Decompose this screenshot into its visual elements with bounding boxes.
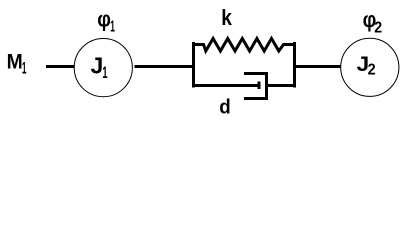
- svg-text:2: 2: [374, 19, 382, 37]
- svg-text:2: 2: [368, 61, 376, 79]
- svg-text:M: M: [7, 50, 23, 74]
- svg-text:d: d: [219, 96, 230, 119]
- svg-text:1: 1: [102, 63, 107, 81]
- svg-text:1: 1: [22, 58, 27, 77]
- svg-text:1: 1: [110, 18, 115, 35]
- svg-text:k: k: [221, 6, 232, 31]
- svg-text:φ: φ: [97, 7, 111, 32]
- svg-text:J: J: [91, 53, 104, 79]
